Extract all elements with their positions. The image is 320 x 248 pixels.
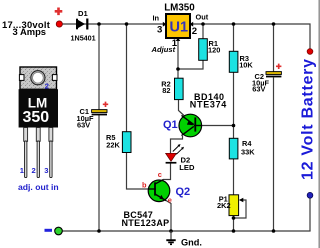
node: ground rail / C1 junction: [97, 229, 101, 233]
capacitor C1: [77, 102, 109, 130]
wire: output top rail from U1 pin 2 to right corner: [190, 24, 310, 49]
node: input rail / C1 junction: [97, 22, 101, 26]
wire: input top rail from + terminal to U1 pin 3: [62, 23, 166, 25]
resistor R2: [161, 78, 183, 99]
package metal tab: [20, 67, 57, 89]
svg-text:3: 3: [44, 166, 48, 175]
package mounting hole: [31, 71, 45, 85]
ground symbol: [166, 231, 202, 248]
wire: Q2 emitter down to ground rail: [166, 201, 171, 232]
wire: R2 bottom to Q1 emitter: [179, 100, 185, 117]
svg-text:120: 120: [208, 46, 220, 55]
svg-text:Out: Out: [196, 12, 209, 21]
svg-text:Gnd.: Gnd.: [181, 238, 202, 248]
wire: C1 lower vertical to ground rail: [98, 115, 100, 231]
svg-text:22K: 22K: [106, 141, 120, 150]
resistor R3: [229, 51, 253, 72]
input plus terminal: [55, 8, 63, 28]
svg-text:D1: D1: [78, 9, 88, 18]
wire: bottom ground rail: [59, 230, 311, 232]
package right notch: [52, 75, 57, 81]
svg-text:2: 2: [32, 166, 36, 175]
svg-text:e: e: [168, 196, 172, 205]
wire: U1 adjust pin down to node: [177, 38, 179, 79]
svg-text:NTE123AP: NTE123AP: [122, 218, 170, 228]
svg-text:adj. out in: adj. out in: [18, 182, 59, 192]
wire: Q1 base to R3/R4 node: [200, 125, 234, 127]
node: ground rail / P1 junction: [232, 229, 236, 233]
wire: D2 cathode down to Q2 collector: [163, 164, 171, 180]
node: input rail / R5 junction: [125, 22, 129, 26]
svg-text:1N5401: 1N5401: [71, 34, 96, 43]
svg-text:3 Amps: 3 Amps: [13, 26, 47, 37]
wire: R3 top leg from output rail: [233, 24, 235, 52]
svg-text:Adjust: Adjust: [151, 45, 176, 54]
wire: adjust node to R1 bottom: [178, 60, 203, 69]
svg-text:33K: 33K: [241, 148, 255, 157]
svg-text:2: 2: [192, 26, 197, 37]
wire: C2 lower vertical to ground rail: [273, 78, 275, 232]
node: P1 wiper / bottom junction: [232, 216, 236, 220]
wire: C1 branch vertical: [98, 24, 100, 110]
input label 17...30volt 3 Amps: [2, 19, 50, 37]
node: ground rail / C2 junction: [272, 229, 276, 233]
svg-text:LM350: LM350: [164, 3, 195, 14]
svg-text:LED: LED: [179, 163, 195, 172]
LED D2: [166, 144, 195, 172]
package leg 1: [24, 128, 28, 142]
wire: R5 bottom to Q2 base: [127, 153, 150, 190]
svg-text:3: 3: [157, 25, 162, 36]
node: output rail / R3 junction: [232, 22, 236, 26]
wire: R5 branch vertical from input rail: [126, 24, 128, 132]
transistor Q1 BD140: [163, 92, 227, 137]
svg-text:In: In: [153, 14, 160, 23]
wire: Q1 collector down to D2 anode: [171, 136, 183, 154]
transistor Q2 BC547: [122, 170, 191, 228]
svg-text:350: 350: [23, 109, 50, 126]
wire: R3 bottom through node to R4 top: [233, 72, 235, 139]
node: adjust / R1 / R2 junction: [176, 67, 180, 71]
battery negative terminal: [307, 192, 313, 198]
svg-text:c: c: [158, 170, 162, 179]
svg-text:2K2: 2K2: [217, 201, 231, 210]
package left notch: [19, 75, 24, 81]
resistor R5: [106, 132, 131, 153]
svg-text:Q1: Q1: [163, 119, 178, 131]
svg-text:63V: 63V: [77, 121, 90, 130]
svg-text:2: 2: [45, 81, 49, 90]
capacitor C2: [252, 64, 281, 94]
wire: P1 bottom to ground rail: [233, 216, 235, 232]
wire: C2 branch vertical upper: [273, 24, 275, 72]
node: ground rail / Q2 emitter junction: [169, 229, 173, 233]
node: output rail / C2 junction: [272, 22, 276, 26]
svg-text:Q2: Q2: [176, 186, 191, 198]
svg-text:63V: 63V: [252, 84, 265, 93]
op-amp U1 regulator LM350: [151, 3, 209, 54]
right page border: [318, 0, 320, 248]
wire: R1 top leg: [202, 24, 204, 39]
svg-text:U1: U1: [170, 20, 189, 36]
wire: negative terminal drop: [309, 198, 311, 231]
package leg 2: [36, 128, 40, 142]
input negative terminal: [45, 227, 63, 235]
battery positive terminal: [307, 49, 313, 55]
wire: R4 bottom to P1 top: [233, 159, 235, 196]
resistor R1: [199, 39, 221, 61]
potentiometer P1: [217, 195, 243, 216]
svg-text:b: b: [142, 180, 147, 189]
resistor R4: [229, 138, 255, 159]
node: Q1 base / R3 / R4 junction: [232, 124, 236, 128]
svg-text:10K: 10K: [239, 61, 253, 70]
svg-text:12 Volt Battery: 12 Volt Battery: [300, 59, 317, 180]
package leg 3: [49, 128, 53, 142]
package body: [19, 89, 58, 127]
wire: P1 wiper loop: [234, 200, 247, 218]
svg-text:82: 82: [162, 86, 170, 95]
diode D1: [71, 9, 96, 43]
svg-text:NTE374: NTE374: [190, 99, 227, 109]
LM350 package (TO-220): [18, 67, 59, 192]
node: output rail / R1 junction: [201, 22, 205, 26]
